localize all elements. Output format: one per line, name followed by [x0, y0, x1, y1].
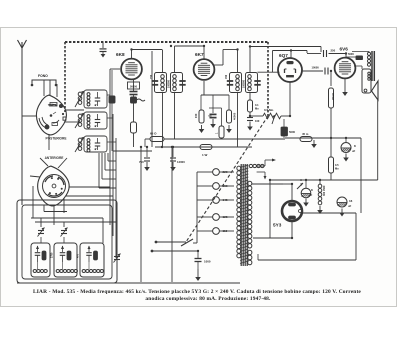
svg-text:6K7: 6K7: [195, 52, 204, 57]
svg-text:ANTERIORE: ANTERIORE: [45, 156, 64, 160]
svg-text:150: 150: [150, 74, 153, 79]
svg-text:5000: 5000: [289, 130, 295, 134]
svg-text:A: A: [300, 178, 302, 182]
svg-text:50000: 50000: [130, 85, 138, 88]
svg-text:220: 220: [223, 170, 228, 174]
svg-text:300 1500: 300 1500: [323, 185, 326, 196]
svg-text:Mo: Mo: [335, 167, 339, 171]
svg-text:65 O: 65 O: [150, 132, 157, 136]
svg-text:750: 750: [139, 160, 144, 164]
svg-text:FONO: FONO: [38, 74, 48, 78]
svg-text:0.5 Mo: 0.5 Mo: [264, 108, 274, 112]
svg-text:250: 250: [331, 49, 336, 53]
svg-text:14000: 14000: [177, 160, 185, 164]
svg-text:470: 470: [77, 253, 80, 258]
svg-text:100000: 100000: [168, 79, 171, 88]
svg-text:1000: 1000: [204, 260, 211, 264]
svg-text:110: 110: [223, 229, 228, 233]
svg-text:16: 16: [349, 199, 353, 203]
svg-text:1 W: 1 W: [202, 153, 208, 157]
svg-text:150: 150: [194, 113, 198, 118]
svg-text:0.5: 0.5: [335, 163, 339, 167]
svg-text:145: 145: [223, 198, 228, 202]
svg-text:6V6: 6V6: [340, 47, 349, 52]
svg-text:Mo: Mo: [255, 107, 259, 111]
svg-text:6Q7: 6Q7: [279, 53, 288, 58]
svg-text:150: 150: [225, 74, 228, 79]
svg-text:125: 125: [223, 215, 228, 219]
svg-text:6K8: 6K8: [116, 52, 125, 57]
svg-text:uF: uF: [348, 204, 352, 208]
svg-text:2750: 2750: [51, 252, 54, 258]
svg-text:40000: 40000: [233, 112, 237, 120]
svg-text:0.1: 0.1: [255, 103, 259, 107]
svg-text:LIAR - Mod. 535 - Media freque: LIAR - Mod. 535 - Media frequenza: 465 k…: [33, 289, 361, 295]
svg-text:5Y3: 5Y3: [273, 223, 282, 228]
svg-text:anodica complessiva: 80 mA. Pr: anodica complessiva: 80 mA. Produzione: …: [145, 296, 271, 302]
svg-text:160: 160: [223, 184, 228, 188]
svg-text:5000: 5000: [348, 52, 354, 56]
svg-text:uF: uF: [352, 149, 356, 153]
svg-text:100000: 100000: [243, 79, 246, 88]
svg-text:uF: uF: [309, 193, 313, 197]
svg-text:10000: 10000: [312, 66, 320, 70]
svg-text:25 kO: 25 kO: [331, 93, 335, 100]
svg-text:45 m: 45 m: [302, 132, 309, 136]
svg-text:100: 100: [255, 119, 260, 123]
